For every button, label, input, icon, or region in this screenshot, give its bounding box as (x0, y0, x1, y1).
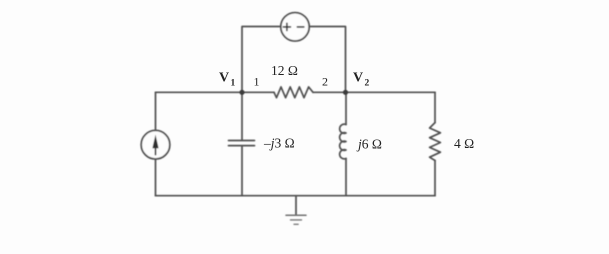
svg-text:–j3 Ω: –j3 Ω (263, 136, 295, 151)
svg-text:1: 1 (254, 75, 260, 89)
svg-text:4 Ω: 4 Ω (454, 136, 474, 151)
svg-text:2: 2 (322, 75, 328, 89)
svg-text:2: 2 (365, 79, 370, 89)
svg-text:V: V (219, 71, 229, 86)
svg-text:j6 Ω: j6 Ω (356, 137, 382, 152)
svg-text:12 Ω: 12 Ω (271, 63, 298, 78)
svg-text:1: 1 (231, 79, 236, 89)
svg-text:V: V (353, 71, 363, 86)
